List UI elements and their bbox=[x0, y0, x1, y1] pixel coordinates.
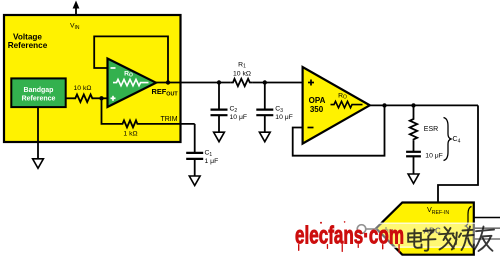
svg-text:Bandgap: Bandgap bbox=[24, 87, 54, 94]
svg-text:ESR: ESR bbox=[424, 126, 438, 133]
node junction (+input / TRIM) bbox=[99, 96, 103, 100]
bandgap reference block bbox=[11, 78, 65, 107]
resistor ESR bbox=[410, 105, 438, 151]
feedback wire (OPA350) bbox=[293, 105, 385, 155]
svg-text:350: 350 bbox=[310, 105, 324, 114]
brace (bus) bbox=[466, 207, 472, 246]
feedback wire (green op-amp) bbox=[94, 36, 168, 82]
voltage reference box U1 bbox=[4, 15, 181, 142]
ADC block U3 bbox=[376, 203, 474, 255]
svg-text:10 μF: 10 μF bbox=[275, 114, 293, 121]
ground (C2) bbox=[214, 132, 225, 142]
power VIN bbox=[70, 1, 80, 32]
svg-text:10 kΩ: 10 kΩ bbox=[74, 85, 92, 92]
svg-text:10 μF: 10 μF bbox=[230, 114, 248, 121]
brace C4 bbox=[444, 118, 461, 161]
svg-text:Reference: Reference bbox=[22, 96, 56, 103]
wire bandgap output to op-amp + input bbox=[66, 97, 74, 99]
capacitor C1 bbox=[186, 150, 218, 177]
watermark band bbox=[353, 223, 500, 247]
op-amp U2 OPA350 bbox=[303, 67, 370, 144]
resistor R1 bbox=[231, 61, 253, 86]
capacitor C4 (10 uF) bbox=[406, 152, 443, 174]
ground (C1) bbox=[189, 176, 200, 186]
resistor 1 kOhm bbox=[121, 120, 139, 137]
capacitor C2 bbox=[211, 83, 248, 133]
wire TRIM branch bbox=[102, 98, 122, 124]
ground (C4) bbox=[408, 174, 419, 184]
svg-text:1 μF: 1 μF bbox=[205, 158, 219, 165]
ground (bandgap) bbox=[33, 159, 44, 169]
char shao bbox=[452, 227, 474, 251]
char fa bbox=[439, 227, 454, 249]
watermark elecfans.com bbox=[295, 221, 404, 253]
op-amp A1 (reference amplifier, green) bbox=[108, 59, 157, 108]
svg-text:Reference: Reference bbox=[8, 41, 48, 50]
node C2 junction bbox=[217, 80, 221, 84]
char you bbox=[475, 227, 495, 252]
node C3 junction bbox=[263, 80, 267, 84]
svg-text:10 kΩ: 10 kΩ bbox=[233, 70, 251, 77]
watermark chinese characters bbox=[408, 227, 494, 252]
svg-text:elecfans·com: elecfans·com bbox=[295, 222, 404, 250]
terminal AIN bbox=[357, 225, 377, 234]
capacitor C3 bbox=[256, 83, 293, 133]
svg-text:1 kΩ: 1 kΩ bbox=[123, 131, 137, 138]
node REF_OUT bbox=[152, 80, 179, 97]
resistor 10 kOhm (bandgap) bbox=[73, 85, 94, 102]
ground (C3) bbox=[259, 132, 270, 142]
svg-text:10 μF: 10 μF bbox=[425, 153, 443, 160]
char dian bbox=[408, 230, 421, 248]
wire to ADC VREF-IN bbox=[438, 105, 478, 202]
digital output bus lines bbox=[474, 218, 500, 240]
wire OPA350 output bbox=[368, 104, 478, 106]
node feedback junction bbox=[382, 103, 386, 107]
wire bandgap to ground bbox=[37, 107, 39, 159]
node ESR junction bbox=[411, 103, 415, 107]
svg-text:TRIM: TRIM bbox=[160, 116, 177, 123]
char zi bbox=[422, 230, 436, 251]
wire REF_OUT line bbox=[154, 82, 231, 84]
